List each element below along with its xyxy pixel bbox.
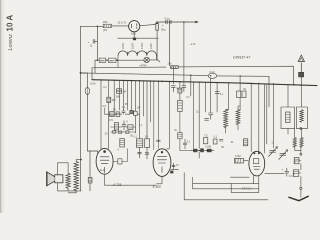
wire primary top xyxy=(76,160,81,162)
svg-text:10 A: 10 A xyxy=(6,15,15,32)
svg-text:1W: 1W xyxy=(137,107,141,110)
wire rectifier cathode right xyxy=(140,25,154,26)
component blob row c1 xyxy=(113,131,129,134)
wire B+ with arrow xyxy=(154,22,195,25)
svg-text:C: C xyxy=(272,141,274,144)
resistor row b xyxy=(116,112,120,117)
svg-text:0,1: 0,1 xyxy=(122,106,126,109)
svg-text:125V: 125V xyxy=(140,43,144,49)
wire stub to tube1 pin xyxy=(90,151,98,155)
wire screen rail xyxy=(81,73,270,107)
junction dots mid xyxy=(190,75,218,84)
capacitor mains filter xyxy=(93,39,97,43)
electrolytic C50 xyxy=(156,22,159,31)
tube V3 AF7 xyxy=(153,149,171,177)
wire drop 273.5 xyxy=(273,84,275,148)
svg-text:7,5: 7,5 xyxy=(204,134,208,137)
svg-text:0,3M: 0,3M xyxy=(235,155,241,158)
junction dots selector rail xyxy=(97,59,118,61)
svg-text:AZ1: AZ1 xyxy=(131,32,137,36)
label box ECH xyxy=(231,184,259,193)
wire resistor to rectifier xyxy=(112,25,129,27)
wire speaker top xyxy=(58,163,69,175)
wire drop 240.1 xyxy=(239,76,241,110)
coupling parts tube2-tube3 xyxy=(171,163,179,169)
svg-text:0,1: 0,1 xyxy=(220,93,224,96)
wire selector rail xyxy=(95,59,99,61)
chassis ground xyxy=(289,196,308,200)
resistor right a xyxy=(178,88,182,93)
RF coil pair bottom xyxy=(293,137,296,147)
wire antenna rail xyxy=(92,66,294,85)
svg-text:(3·5.7): (3·5.7) xyxy=(118,21,127,25)
wire fuse down to output stage xyxy=(87,95,90,178)
wire chain right down xyxy=(295,129,302,138)
svg-text:0,1: 0,1 xyxy=(186,96,190,99)
svg-text:220V: 220V xyxy=(121,43,125,49)
fuse Si xyxy=(81,73,88,88)
svg-text:a·47: a·47 xyxy=(191,43,197,46)
svg-text:25k: 25k xyxy=(167,62,172,66)
wire antenna down xyxy=(300,77,302,85)
wire drop 217.1 xyxy=(216,83,218,112)
cap cluster left of chain xyxy=(285,168,289,176)
svg-text:j03: j03 xyxy=(102,28,107,32)
wire drop 266.7 xyxy=(266,84,268,144)
wire lamp right xyxy=(149,60,160,62)
wire drop 251 to tube V4 xyxy=(250,83,252,151)
wire drop cap 173.3 xyxy=(172,67,174,84)
wire cluster row link b xyxy=(111,126,136,128)
label smudges cluster xyxy=(103,86,274,152)
wire IF coils bottom xyxy=(226,125,238,133)
capacitor on antenna rail xyxy=(171,86,175,92)
svg-text:0,5M: 0,5M xyxy=(205,146,211,149)
voltage selector S1a xyxy=(99,58,105,62)
antenna coupling coil xyxy=(299,72,304,77)
capacitor above tube V3 xyxy=(157,140,161,141)
junction dot antenna xyxy=(300,84,302,86)
wire drop 104.6 mid xyxy=(104,108,106,114)
resistor pair right xyxy=(237,91,246,98)
wire electrolytic negative lead xyxy=(156,30,158,60)
wire tanks to bus xyxy=(288,85,301,107)
winding voltage labels (vertical) xyxy=(121,43,153,49)
wire drop AVC 169.6 xyxy=(169,82,171,149)
capacitor mid xyxy=(122,121,126,130)
wire IF coils top xyxy=(226,83,240,110)
svg-text:0,1: 0,1 xyxy=(187,140,191,143)
svg-text:0,2: 0,2 xyxy=(196,110,200,113)
wire res lower xyxy=(180,111,191,150)
wire drop 190.8 xyxy=(190,75,192,96)
svg-text:150V: 150V xyxy=(130,43,134,49)
wire main HT bus xyxy=(92,80,317,86)
wire drop 127.5 xyxy=(127,81,129,110)
wire return L outer xyxy=(184,173,268,200)
coil in tank right xyxy=(300,110,304,123)
components above tube V4 xyxy=(203,138,217,144)
capacitor drop 147 xyxy=(145,153,149,154)
transformer winding taps xyxy=(118,52,156,67)
wire HT winding top rail xyxy=(118,37,158,39)
resistor R anode1 xyxy=(107,97,111,102)
junction dots tube V3 feeds xyxy=(153,81,159,83)
wire drop 123.3 xyxy=(122,81,124,110)
wire row c xyxy=(111,131,136,133)
wire drop 131.4 xyxy=(130,81,132,110)
svg-text:A 725: A 725 xyxy=(112,183,121,187)
dial lamp La xyxy=(144,57,149,62)
wire coil pair joins xyxy=(295,148,301,153)
voltage selector S1b xyxy=(108,58,116,62)
wire top rail to rectifier xyxy=(81,25,104,27)
resistor in tank left xyxy=(286,112,290,123)
junction dot mains feed top xyxy=(97,26,99,28)
wire drop tube1 grid xyxy=(100,80,102,152)
capacitor row d dark xyxy=(130,110,133,113)
output transformer secondary coil xyxy=(66,173,70,191)
tube V4 ECH xyxy=(249,151,265,176)
grid components row xyxy=(193,148,211,152)
resistor antenna series xyxy=(171,66,179,69)
wire cap to drop xyxy=(122,149,128,162)
wire drop 258.8 xyxy=(258,84,260,153)
resistor 1M xyxy=(117,89,122,94)
wire drop 150.4 xyxy=(149,81,151,122)
trimmer capacitor a xyxy=(269,147,278,157)
trimmer capacitor b xyxy=(279,150,288,160)
wire cluster row link a xyxy=(105,113,140,115)
wire cathode bus xyxy=(105,184,157,186)
wire speaker bottom xyxy=(58,183,81,191)
wire drop tube V3 grid xyxy=(153,81,155,149)
circle contact b xyxy=(300,153,302,155)
svg-text:0,5A: 0,5A xyxy=(90,82,96,86)
capacitor C12 xyxy=(208,73,217,78)
svg-text:0,1µ: 0,1µ xyxy=(165,16,171,20)
wire resistor to tube V4 xyxy=(231,161,250,178)
capacitor 0,1 right xyxy=(215,92,219,94)
svg-text:C12: C12 xyxy=(209,70,215,74)
wire drop 143.5 xyxy=(143,81,145,116)
component bottom row 1 xyxy=(120,139,125,147)
wire drop res 179.9 xyxy=(179,82,181,88)
wire drop 114 xyxy=(113,80,115,112)
svg-text:AL4: AL4 xyxy=(100,168,105,172)
wire tube V3 cathode down xyxy=(156,176,162,183)
svg-text:0,1: 0,1 xyxy=(214,136,218,139)
resistor chain right xyxy=(294,157,301,163)
resistor row a xyxy=(110,112,115,117)
circle contact c xyxy=(300,187,302,189)
svg-text:150: 150 xyxy=(103,20,108,24)
svg-text:470: 470 xyxy=(109,119,114,122)
svg-text:Lorenz: Lorenz xyxy=(8,34,14,51)
component bottom row 2 xyxy=(136,139,142,148)
wire drop 184 B+ xyxy=(183,22,185,85)
wire drop 147 xyxy=(146,81,148,159)
svg-text:50µ: 50µ xyxy=(161,28,166,32)
svg-text:DIN937-47: DIN937-47 xyxy=(233,56,251,60)
capacitor right of tube V2 xyxy=(118,159,122,164)
junction dot screen rail xyxy=(80,72,241,77)
capacitor at tube V3 anode xyxy=(170,171,173,174)
svg-text:110V: 110V xyxy=(149,43,153,49)
IF transformer coil a xyxy=(224,109,228,127)
wire box top left xyxy=(193,183,231,185)
svg-text:K 400: K 400 xyxy=(153,185,162,189)
wire mains feed to selector xyxy=(96,26,98,60)
resistor row e xyxy=(134,111,138,115)
wire rectifier anode down xyxy=(133,32,135,38)
wire filter cap lead xyxy=(168,24,170,66)
arrowhead B+ xyxy=(195,21,199,24)
capacitor chain right xyxy=(293,170,301,177)
tube V2 output AL4 xyxy=(96,148,113,174)
wire drop 135.4 xyxy=(134,81,136,133)
wire tube V2 cathode down xyxy=(104,174,106,185)
wire to chassis xyxy=(300,190,302,198)
oscillator tank box right xyxy=(296,107,307,129)
resistor mid 179 lower xyxy=(178,133,182,139)
wire drop 205.6 xyxy=(205,82,207,112)
wire resistor down xyxy=(108,102,110,149)
wire selector to lamp xyxy=(116,59,144,61)
wire drop 193.7 xyxy=(193,82,195,149)
svg-text:0,1: 0,1 xyxy=(139,124,143,127)
oscillator tank box left xyxy=(281,107,295,129)
svg-text:ECH2A: ECH2A xyxy=(242,187,252,191)
wire drop 199.2 xyxy=(198,82,200,143)
junction dots grid row xyxy=(193,150,208,151)
resistor mid tall xyxy=(114,123,118,130)
resistor field coil R xyxy=(88,177,92,183)
wire drop tube1 anode xyxy=(108,80,110,97)
output transformer primary coil xyxy=(68,161,78,192)
junction connector blob xyxy=(133,38,136,41)
capacitor mid right xyxy=(209,113,213,119)
svg-text:0,1: 0,1 xyxy=(103,86,107,89)
wire to cap xyxy=(300,164,302,170)
resistor mains dropper xyxy=(103,24,111,27)
capacitor row c xyxy=(122,110,125,114)
wire drop tube V3 screen xyxy=(157,81,159,148)
wire res to res xyxy=(179,93,181,100)
capacitor under 184 xyxy=(182,86,186,92)
svg-text:1M: 1M xyxy=(122,90,126,94)
wire mains left vertical xyxy=(80,26,82,191)
wire grid row xyxy=(191,143,214,158)
wire tube V4 right to RF chain xyxy=(265,173,296,176)
wire drop 139.5 xyxy=(139,81,141,158)
resistor before V4 xyxy=(234,158,243,163)
wire selector drop xyxy=(92,60,95,79)
wire resistor to bottom xyxy=(89,183,91,191)
resistor top tube V4 right xyxy=(243,139,247,146)
IF transformer coil b xyxy=(236,109,240,124)
svg-text:+: + xyxy=(88,40,90,44)
wire drop 264 xyxy=(263,84,265,153)
transformer T1 winding bumps xyxy=(118,51,156,56)
speaker LS xyxy=(47,172,63,186)
svg-text:×4784: ×4784 xyxy=(139,63,147,67)
stub tube V2 anode right xyxy=(113,160,118,162)
junction dots HT bus xyxy=(100,79,302,86)
capacitor block 0.1uF xyxy=(166,20,171,24)
svg-text:0,5: 0,5 xyxy=(103,105,107,108)
capacitor IF left xyxy=(205,119,209,121)
resistor right b tall xyxy=(178,100,183,111)
resistor 10k box xyxy=(128,125,133,130)
antenna A xyxy=(298,55,304,72)
junction dot output xyxy=(80,159,82,161)
wire box right up to tube xyxy=(258,175,260,183)
wire tube V4 bottom xyxy=(252,176,254,184)
title Lorenz 10 A (rotated) xyxy=(6,15,15,51)
capacitor mid 184 lower xyxy=(183,139,187,149)
rectifier tube V1 xyxy=(129,21,140,32)
svg-text:2M: 2M xyxy=(112,98,116,102)
wire drop C12 down xyxy=(210,78,212,112)
capacitor drop 139.5 xyxy=(138,152,142,153)
wire tank left down xyxy=(287,129,289,134)
component bottom row 3 xyxy=(145,139,150,148)
wire return L inner xyxy=(193,177,259,189)
circle contact a xyxy=(300,127,302,129)
wire cap down xyxy=(300,176,302,187)
svg-text:0,1: 0,1 xyxy=(134,136,138,139)
wire drop 119.5 xyxy=(119,80,121,110)
